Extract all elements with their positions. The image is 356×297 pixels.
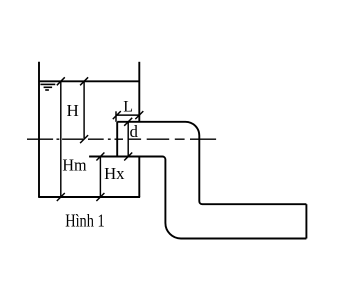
tick at d bottom <box>124 153 132 161</box>
svg-text:H: H <box>67 101 79 120</box>
dimension line Hm <box>60 81 62 197</box>
water level symbol <box>40 84 55 90</box>
tick at Hx bottom <box>96 193 104 201</box>
tick at L right <box>135 111 143 119</box>
pipe inner path: bottom edge, small corner down, left side of down run, bottom bend, bottom of bottom run <box>89 157 306 239</box>
L left extension line <box>115 111 117 122</box>
Hx top extension line <box>89 156 100 158</box>
svg-text:Hình 1: Hình 1 <box>65 211 105 231</box>
dimension line H <box>83 81 85 139</box>
water surface line <box>39 80 139 82</box>
svg-text:d: d <box>130 122 139 141</box>
dimension line L <box>117 114 140 116</box>
tick at H top <box>80 77 88 85</box>
tick at L left <box>113 111 121 119</box>
dimension line Hx <box>99 157 101 198</box>
tank bottom <box>38 196 140 198</box>
tick at Hm top <box>57 77 65 85</box>
pipe outer path: top edge, right bend, down, inner bottom corner, top of bottom run <box>117 122 306 204</box>
dimension line d <box>127 122 129 157</box>
pipe right end cap <box>305 204 307 238</box>
svg-text:L: L <box>123 98 133 115</box>
svg-text:Hm: Hm <box>62 155 86 174</box>
tick at d top <box>124 118 132 126</box>
tick at H bottom <box>80 135 88 143</box>
tick at Hx top <box>96 153 104 161</box>
tick at Hm bottom <box>57 193 65 201</box>
tank right wall upper segment <box>138 62 140 122</box>
tank left wall <box>38 62 40 197</box>
centerline (dash-dot axis) <box>27 138 216 140</box>
tank right wall lower segment <box>138 157 140 198</box>
svg-text:Hx: Hx <box>104 164 125 183</box>
pipe inlet opening (left end cap inside tank) <box>116 122 118 157</box>
